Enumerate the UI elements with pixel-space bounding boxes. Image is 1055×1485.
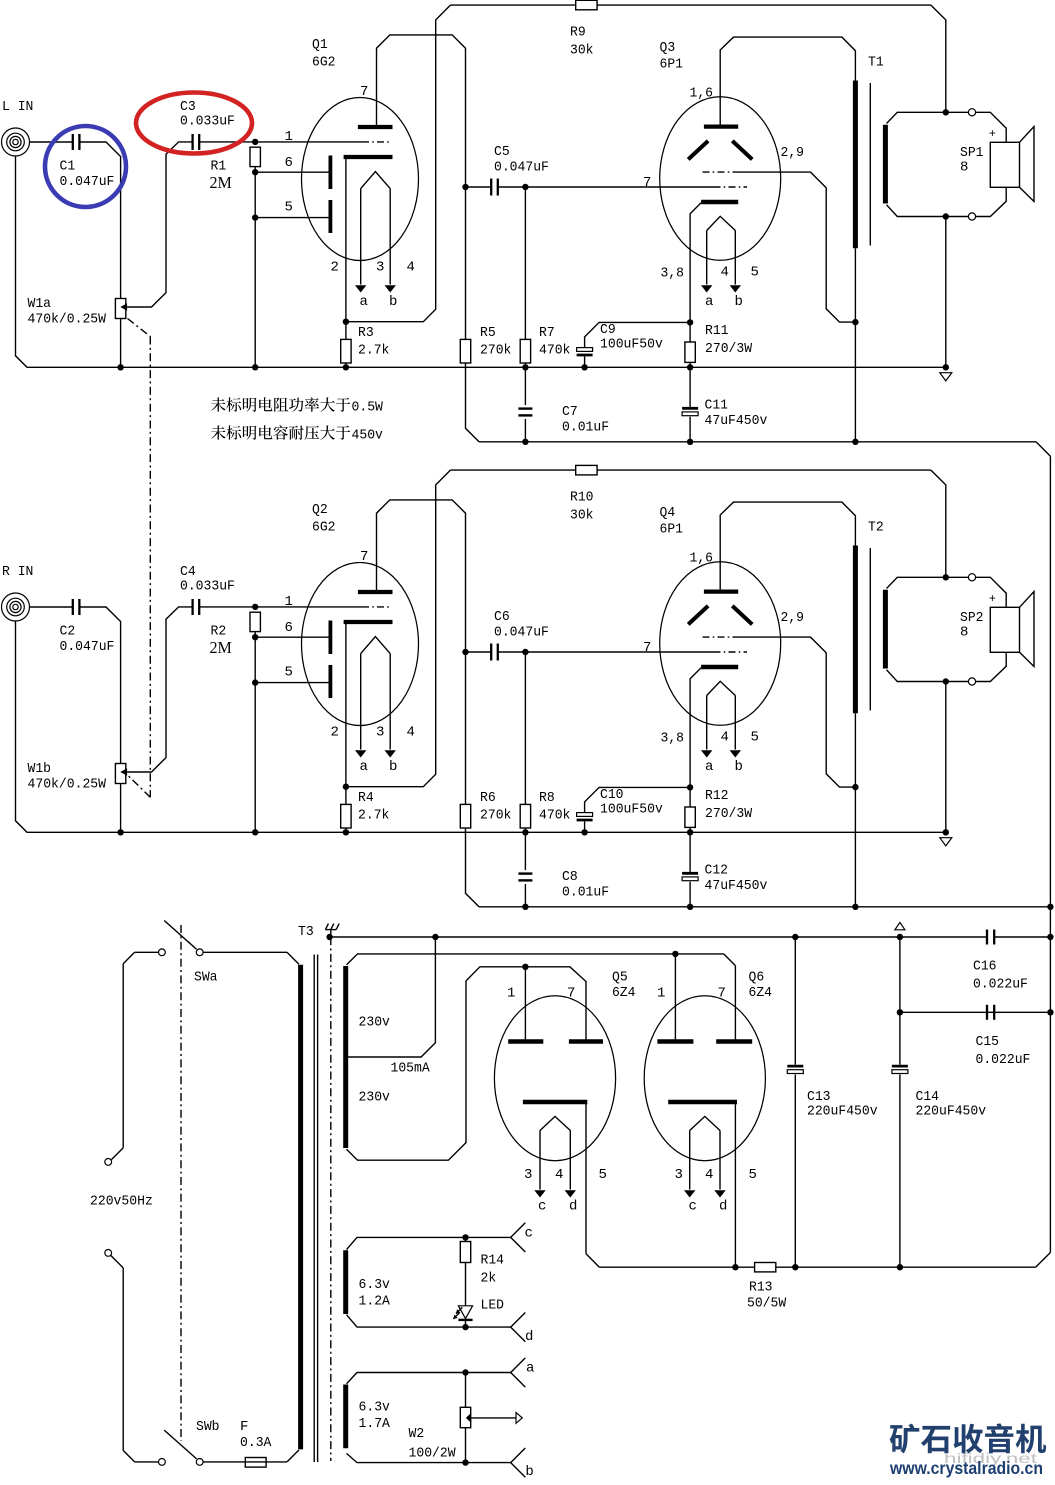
resistor R13 50/5W label	[747, 1280, 787, 1312]
svg-text:2M: 2M	[210, 638, 232, 657]
capacitor C12 47uF450v	[682, 832, 767, 907]
heater2 bottom wire to b	[347, 1448, 534, 1480]
wire speaker return to ground	[945, 682, 947, 833]
wire secondary bottom to speaker return	[887, 187, 1007, 220]
T3 heater winding 6.3v 1.7A	[346, 1385, 391, 1449]
ground symbol	[940, 838, 952, 846]
svg-text:270k: 270k	[480, 343, 511, 359]
svg-text:4: 4	[721, 265, 729, 281]
svg-text:2,9: 2,9	[781, 145, 805, 161]
svg-text:www.crystalradio.cn: www.crystalradio.cn	[889, 1458, 1043, 1478]
pentode Q4 6P1	[660, 505, 781, 725]
svg-text:0.022uF: 0.022uF	[976, 1052, 1031, 1068]
wire W1 wiper to C3	[127, 607, 192, 772]
svg-text:5: 5	[285, 199, 293, 215]
capacitor C16 0.022uF	[973, 930, 1028, 993]
svg-text:470k/0.25W: 470k/0.25W	[28, 777, 107, 793]
cathode with filament arrows a b	[331, 172, 415, 310]
svg-text:220uF450v: 220uF450v	[916, 1103, 987, 1119]
svg-text:1: 1	[285, 594, 293, 610]
resistor R8 470k grid leak	[520, 652, 570, 836]
grid dash pin 7	[714, 186, 748, 188]
svg-text:a: a	[360, 294, 368, 310]
Q5 cathode bar	[523, 1100, 587, 1105]
svg-text:5: 5	[285, 664, 293, 680]
power transformer T3 primary winding	[298, 924, 314, 1449]
wire secondary top to speaker	[887, 574, 1007, 608]
svg-text:2: 2	[331, 260, 339, 276]
svg-text:1: 1	[657, 985, 665, 1001]
svg-text:6G2: 6G2	[312, 55, 336, 71]
svg-text:C11: C11	[705, 398, 729, 414]
svg-text:C4: C4	[180, 564, 196, 580]
wire W1 bottom to ground bus	[117, 784, 123, 836]
wire C5 to pin7 grid	[525, 175, 713, 191]
svg-text:1: 1	[507, 985, 515, 1001]
svg-text:C7: C7	[562, 404, 578, 420]
svg-text:0.5W: 0.5W	[352, 400, 384, 416]
label L IN	[2, 99, 33, 115]
screen dash-dot	[703, 636, 734, 638]
HV bottom tap to Q5 plates	[347, 981, 467, 1160]
filament arch arrows a b	[701, 216, 759, 310]
capacitor C13 220uF450v	[787, 937, 877, 1267]
svg-text:R8: R8	[539, 790, 555, 806]
wire fuse to T3 primary bottom	[287, 1450, 299, 1462]
wire pin2 down to R3 node	[343, 157, 349, 325]
watermark hifidiy.net	[944, 1450, 1037, 1466]
wire SWa to mains terminal	[105, 952, 159, 1165]
wire secondary top to speaker	[887, 109, 1007, 143]
svg-text:7: 7	[360, 549, 368, 565]
resistor R12 270/3W cathode	[685, 784, 753, 835]
svg-text:Q2: Q2	[312, 502, 328, 518]
capacitor C7 0.01uF	[518, 367, 609, 442]
resistor R2 2M	[210, 612, 261, 835]
svg-text:220uF450v: 220uF450v	[807, 1103, 878, 1119]
resistor R14 2k	[460, 1237, 504, 1286]
wire C1 to pot W1 top	[80, 142, 121, 299]
svg-text:2.7k: 2.7k	[358, 343, 389, 359]
svg-text:1,6: 1,6	[690, 86, 714, 102]
wire jack to C1	[29, 606, 72, 608]
svg-text:c: c	[538, 1199, 546, 1215]
potentiometer W1b 470k/0.25W	[28, 761, 128, 793]
T3 HV secondary winding 230v-0-230v	[346, 966, 390, 1148]
svg-text:C5: C5	[494, 144, 510, 160]
capacitor C1 0.047uF	[60, 134, 115, 190]
speaker SP1 8 ohm	[960, 127, 1034, 202]
wire R3 node to feedback R9	[346, 470, 451, 787]
svg-text:R12: R12	[705, 788, 729, 804]
wire cathode to R11	[690, 203, 701, 323]
B+ bus	[479, 439, 1050, 457]
svg-text:6Z4: 6Z4	[749, 985, 773, 1001]
svg-text:6.3v: 6.3v	[359, 1277, 390, 1293]
svg-text:1,6: 1,6	[690, 551, 714, 567]
wire pin1	[255, 594, 362, 610]
wire C3 to grid node	[200, 604, 259, 610]
capacitor C3 0.033uF	[180, 99, 235, 150]
svg-text:c: c	[525, 1225, 533, 1241]
cathode with filament arrows a b	[331, 637, 415, 775]
svg-text:2.7k: 2.7k	[358, 808, 389, 824]
capacitor C6 0.047uF coupling	[462, 609, 549, 661]
wire screen to primary bottom	[734, 637, 856, 787]
svg-text:R10: R10	[570, 490, 594, 506]
resistor R4 2.7k cathode	[341, 787, 390, 836]
B+ marker triangle	[895, 922, 905, 929]
svg-text:b: b	[389, 294, 397, 310]
svg-text:270/3W: 270/3W	[705, 341, 753, 357]
svg-text:2k: 2k	[481, 1271, 497, 1287]
svg-text:0.047uF: 0.047uF	[60, 639, 115, 655]
svg-text:LED: LED	[481, 1298, 505, 1314]
svg-text:R14: R14	[481, 1253, 505, 1269]
wire R5 to B+ bus	[466, 828, 480, 907]
output transformer T2	[855, 520, 885, 714]
svg-text:2M: 2M	[210, 173, 232, 192]
svg-text:3: 3	[524, 1167, 532, 1183]
svg-text:4: 4	[407, 260, 415, 276]
svg-text:6G2: 6G2	[312, 520, 336, 536]
svg-text:0.033uF: 0.033uF	[180, 579, 235, 595]
Q5 cathode to output bus	[586, 1102, 599, 1267]
wire pins 1,6 to T primary top	[720, 37, 855, 127]
svg-text:Q6: Q6	[749, 970, 765, 986]
svg-text:L IN: L IN	[2, 99, 33, 115]
svg-text:0.022uF: 0.022uF	[973, 977, 1028, 993]
svg-text:105mA: 105mA	[391, 1061, 431, 1077]
resistor R3 2.7k cathode	[341, 322, 390, 371]
plate bar top (pin 7)	[358, 549, 393, 592]
note capacitor voltage text	[211, 425, 383, 443]
wire primary bottom to B+	[852, 713, 858, 907]
capacitor C11 47uF450v	[682, 367, 767, 442]
svg-text:3: 3	[376, 260, 384, 276]
svg-text:Q4: Q4	[660, 505, 676, 521]
plate bar pins 1,6	[690, 86, 739, 127]
svg-text:R9: R9	[570, 25, 586, 41]
T3 shield dash-dot with chassis symbol	[325, 924, 339, 1461]
wire pin6	[255, 620, 329, 637]
svg-text:8: 8	[960, 159, 968, 175]
svg-text:100/2W: 100/2W	[409, 1446, 457, 1462]
svg-text:5: 5	[751, 265, 759, 281]
svg-text:a: a	[705, 759, 713, 775]
svg-text:4: 4	[555, 1167, 563, 1183]
svg-text:a: a	[705, 294, 713, 310]
Q6 plate bars	[657, 1039, 752, 1044]
highlight circle blue around C1	[45, 126, 126, 207]
Q5 filament arch arrows c d	[524, 1116, 607, 1214]
svg-text:6: 6	[285, 620, 293, 636]
resistor R7 470k grid leak	[520, 187, 570, 370]
wire R5 to B+ bus	[466, 363, 480, 442]
resistor R9 30k feedback	[450, 0, 931, 58]
plate bar pins 1,6	[690, 551, 739, 592]
svg-text:R7: R7	[539, 325, 555, 341]
Q5 plate bars	[508, 1039, 603, 1044]
wire pin5	[255, 199, 329, 217]
svg-text:0.033uF: 0.033uF	[180, 114, 235, 130]
svg-text:7: 7	[643, 175, 651, 191]
switch gang link dash-dot	[180, 925, 182, 1441]
rectifier output bus with R13	[599, 1263, 1035, 1272]
ground bus	[16, 621, 950, 836]
svg-text:R IN: R IN	[2, 564, 33, 580]
svg-text:b: b	[735, 294, 743, 310]
wire W1 wiper to C3	[127, 142, 192, 307]
wire C1 to pot W1 top	[80, 607, 121, 764]
svg-text:270k: 270k	[480, 808, 511, 824]
wire pin2 down to R3 node	[343, 622, 349, 790]
svg-text:R5: R5	[480, 325, 496, 341]
resistor R5 270k plate load	[460, 187, 511, 363]
svg-text:7: 7	[643, 640, 651, 656]
svg-text:5: 5	[599, 1167, 607, 1183]
mains switch SWa	[159, 921, 218, 986]
Q6 cathode bar	[668, 1100, 737, 1105]
svg-text:230v: 230v	[359, 1015, 390, 1031]
svg-text:4: 4	[721, 730, 729, 746]
svg-text:+: +	[989, 593, 996, 605]
svg-text:220v50Hz: 220v50Hz	[90, 1194, 153, 1210]
svg-text:d: d	[719, 1199, 727, 1215]
wire pin7 to C5 node	[377, 500, 466, 652]
ground bus	[16, 156, 950, 371]
svg-text:SWa: SWa	[194, 970, 218, 986]
grid dash pin 7	[714, 651, 748, 653]
svg-text:3,8: 3,8	[661, 731, 685, 747]
Q6 filament arch arrows c d	[675, 1116, 757, 1214]
svg-text:3,8: 3,8	[661, 266, 685, 282]
svg-text:C15: C15	[976, 1034, 1000, 1050]
note resistor power text	[211, 397, 383, 415]
diode plate bar (pin 2)	[344, 155, 393, 159]
svg-text:30k: 30k	[570, 43, 594, 59]
svg-text:R3: R3	[358, 325, 374, 341]
capacitor C4 0.033uF	[180, 564, 235, 615]
rectifier Q6 6Z4	[644, 970, 772, 1161]
input jack R IN	[2, 593, 30, 621]
svg-text:47uF450v: 47uF450v	[705, 878, 768, 894]
filament arch arrows a b	[701, 681, 759, 775]
pentode Q3 6P1	[660, 40, 781, 260]
wire mains lower terminal to SWb	[105, 1250, 159, 1462]
Q5 plate loop pins 1 7	[466, 964, 586, 1042]
svg-text:a: a	[360, 759, 368, 775]
svg-text:6Z4: 6Z4	[612, 985, 636, 1001]
label R IN	[2, 564, 33, 580]
wire pins 1,6 to T primary top	[720, 502, 855, 591]
triode Q2 6G2	[302, 502, 419, 726]
svg-text:0.01uF: 0.01uF	[562, 885, 609, 901]
wire W1 bottom to ground bus	[117, 319, 123, 371]
svg-text:W1b: W1b	[28, 761, 52, 777]
svg-text:100uF50v: 100uF50v	[600, 802, 663, 818]
svg-text:6P1: 6P1	[660, 522, 684, 538]
mains switch SWb	[159, 1419, 220, 1465]
svg-text:2,9: 2,9	[781, 610, 805, 626]
rectifier Q5 6Z4	[494, 970, 635, 1161]
label 220v50Hz	[90, 1194, 153, 1210]
svg-text:0.047uF: 0.047uF	[494, 160, 549, 176]
svg-text:Q5: Q5	[612, 970, 628, 986]
screen grid bars pins 2,9	[688, 606, 804, 626]
speaker SP2 8 ohm	[960, 592, 1034, 667]
highlight ellipse red around C3	[136, 93, 252, 154]
screen dash-dot	[703, 171, 734, 173]
wire pin5	[255, 664, 329, 682]
svg-text:6P1: 6P1	[660, 57, 684, 73]
grid bars pins 6,5	[328, 156, 332, 234]
diode plate bar (pin 2)	[344, 620, 393, 624]
svg-text:T2: T2	[868, 520, 884, 536]
wire primary bottom to B+	[852, 248, 858, 442]
svg-text:b: b	[525, 1464, 533, 1480]
svg-text:6.3v: 6.3v	[359, 1400, 390, 1416]
wire SWa to T3 primary top	[203, 952, 299, 964]
svg-text:0.01uF: 0.01uF	[562, 420, 609, 436]
svg-text:5: 5	[751, 730, 759, 746]
B+ rail wire right edge	[1036, 456, 1054, 1267]
svg-text:450v: 450v	[352, 428, 383, 444]
wire pin1	[255, 129, 362, 145]
output transformer T1	[855, 55, 885, 249]
svg-text:Q3: Q3	[660, 40, 676, 56]
potentiometer W1a 470k/0.25W	[28, 296, 128, 328]
svg-text:470k/0.25W: 470k/0.25W	[28, 312, 107, 328]
svg-text:4: 4	[407, 725, 415, 741]
ground symbol	[940, 373, 952, 381]
capacitor C5 0.047uF coupling	[462, 144, 549, 196]
svg-text:270/3W: 270/3W	[705, 806, 753, 822]
wire C3 to grid node	[200, 139, 259, 145]
resistor R10 30k feedback	[450, 465, 931, 523]
svg-text:C8: C8	[562, 869, 578, 885]
cathode bar pins 3,8	[661, 667, 739, 747]
svg-text:3: 3	[675, 1167, 683, 1183]
svg-text:C3: C3	[180, 99, 196, 115]
resistor R11 270/3W cathode	[685, 319, 753, 370]
svg-text:1.2A: 1.2A	[359, 1294, 391, 1310]
capacitor C2 0.047uF	[60, 599, 115, 655]
input jack L IN	[2, 128, 30, 156]
svg-text:T1: T1	[868, 55, 884, 71]
svg-text:8: 8	[960, 624, 968, 640]
svg-text:C12: C12	[705, 863, 729, 879]
LED indicator	[453, 1263, 504, 1328]
svg-text:b: b	[389, 759, 397, 775]
wire pin6	[255, 155, 329, 172]
svg-text:5: 5	[749, 1167, 757, 1183]
svg-text:4: 4	[705, 1167, 713, 1183]
svg-text:d: d	[569, 1199, 577, 1215]
wire screen to primary bottom	[734, 172, 856, 322]
wire feedback to secondary	[931, 470, 946, 577]
B+ bus	[479, 904, 1054, 910]
grid bars pins 6,5	[328, 621, 332, 699]
T3 core	[314, 955, 317, 1463]
ganged volume link dash-dot	[128, 319, 151, 798]
svg-text:470k: 470k	[539, 343, 570, 359]
svg-text:7: 7	[360, 84, 368, 100]
rectifier ground bus	[326, 934, 1050, 940]
svg-text:C2: C2	[60, 623, 76, 639]
capacitor C15 0.022uF	[897, 1005, 1051, 1068]
svg-text:b: b	[735, 759, 743, 775]
wire cathode to R11	[690, 668, 701, 788]
svg-text:100uF50v: 100uF50v	[600, 337, 663, 353]
fuse F 0.3A	[203, 1419, 287, 1467]
svg-text:0.047uF: 0.047uF	[60, 174, 115, 190]
svg-text:+: +	[989, 128, 996, 140]
svg-text:3: 3	[376, 725, 384, 741]
center tap 105mA	[346, 934, 439, 1077]
T3 heater winding 6.3v 1.2A	[346, 1250, 391, 1314]
heater1 top wire to c	[347, 1223, 533, 1252]
svg-text:50/5W: 50/5W	[747, 1296, 787, 1312]
capacitor C8 0.01uF	[518, 832, 609, 907]
svg-text:1: 1	[285, 129, 293, 145]
Q6 cathode to output bus	[732, 1102, 738, 1270]
svg-text:C6: C6	[494, 609, 510, 625]
svg-text:0.3A: 0.3A	[240, 1435, 272, 1451]
triode Q1 6G2	[302, 37, 419, 261]
watermark kuangshi radio	[890, 1423, 1046, 1453]
plate bar top (pin 7)	[358, 84, 393, 127]
svg-text:6: 6	[285, 155, 293, 171]
resistor R6 270k plate load	[460, 652, 511, 828]
svg-text:F: F	[240, 1419, 248, 1435]
screen grid bars pins 2,9	[688, 141, 804, 161]
Q6 pin 7 wire	[734, 966, 736, 1042]
svg-text:230v: 230v	[359, 1090, 390, 1106]
svg-text:30k: 30k	[570, 508, 594, 524]
capacitor C9 100uF50v cathode bypass	[577, 322, 691, 370]
heater2 top wire to a	[347, 1358, 535, 1387]
wire speaker return to ground	[945, 217, 947, 368]
resistor R1 2M	[210, 147, 261, 370]
cathode bar pins 3,8	[661, 202, 739, 282]
svg-text:R6: R6	[480, 790, 496, 806]
svg-text:a: a	[526, 1360, 534, 1376]
wire secondary bottom to speaker return	[887, 652, 1007, 685]
svg-text:d: d	[525, 1329, 533, 1345]
grid 1 dash-dot	[362, 141, 391, 143]
hum pot W2 100/2W	[409, 1373, 523, 1466]
svg-text:SWb: SWb	[196, 1419, 220, 1435]
svg-text:R11: R11	[705, 323, 729, 339]
svg-text:W1a: W1a	[28, 296, 52, 312]
svg-text:0.047uF: 0.047uF	[494, 625, 549, 641]
svg-text:1.7A: 1.7A	[359, 1416, 391, 1432]
svg-text:R13: R13	[749, 1280, 773, 1296]
wire pin7 to C5 node	[377, 35, 466, 187]
wire R3 node to feedback R9	[346, 5, 451, 322]
capacitor C10 100uF50v cathode bypass	[577, 787, 691, 836]
svg-text:W2: W2	[409, 1426, 425, 1442]
svg-text:470k: 470k	[539, 808, 570, 824]
wire jack to C1	[29, 141, 72, 143]
svg-text:C16: C16	[973, 959, 997, 975]
heater1 bottom wire to d	[347, 1313, 534, 1346]
svg-text:C1: C1	[60, 158, 76, 174]
svg-text:R4: R4	[358, 790, 374, 806]
watermark www.crystalradio.cn	[889, 1458, 1043, 1478]
wire C5 to pin7 grid	[525, 640, 713, 656]
